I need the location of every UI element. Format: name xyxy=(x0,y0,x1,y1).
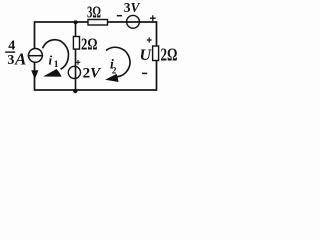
svg-text:3Ω: 3Ω xyxy=(87,2,101,21)
svg-text:2Ω: 2Ω xyxy=(81,35,98,54)
plus sign of 2V xyxy=(76,60,81,65)
svg-text:A: A xyxy=(14,49,26,68)
svg-text:i: i xyxy=(49,52,53,67)
svg-text:2: 2 xyxy=(112,67,117,77)
resistor 2ohm right xyxy=(153,46,159,61)
junction dot top xyxy=(74,20,78,24)
resistor 2ohm middle xyxy=(73,37,79,50)
current direction arrow on left wire xyxy=(31,70,38,79)
svg-text:3V: 3V xyxy=(124,0,141,15)
current source bar xyxy=(28,55,44,57)
minus sign below U xyxy=(142,72,147,74)
svg-text:U: U xyxy=(140,47,153,64)
resistor 3ohm top xyxy=(88,20,108,26)
plus sign right of 3V xyxy=(150,15,156,21)
mesh current arrow i2 head xyxy=(105,74,118,82)
voltage source 3V circle xyxy=(127,15,140,28)
svg-text:2Ω: 2Ω xyxy=(161,44,178,64)
plus sign above U xyxy=(147,38,152,43)
junction dot bottom xyxy=(73,89,77,93)
wire middle branch xyxy=(75,22,77,90)
minus sign left of 3V xyxy=(117,15,122,17)
svg-text:3: 3 xyxy=(7,53,14,68)
mesh current arrow i1 arc xyxy=(43,40,69,70)
outer circuit loop wire xyxy=(35,22,157,90)
mesh current arrow i1 head xyxy=(43,69,61,77)
voltage source 2V circle xyxy=(68,66,80,78)
mesh current arrow i2 arc xyxy=(106,47,130,76)
current source I1 4/3A circle xyxy=(29,49,43,63)
svg-text:2V: 2V xyxy=(83,66,103,82)
svg-text:1: 1 xyxy=(54,60,59,70)
